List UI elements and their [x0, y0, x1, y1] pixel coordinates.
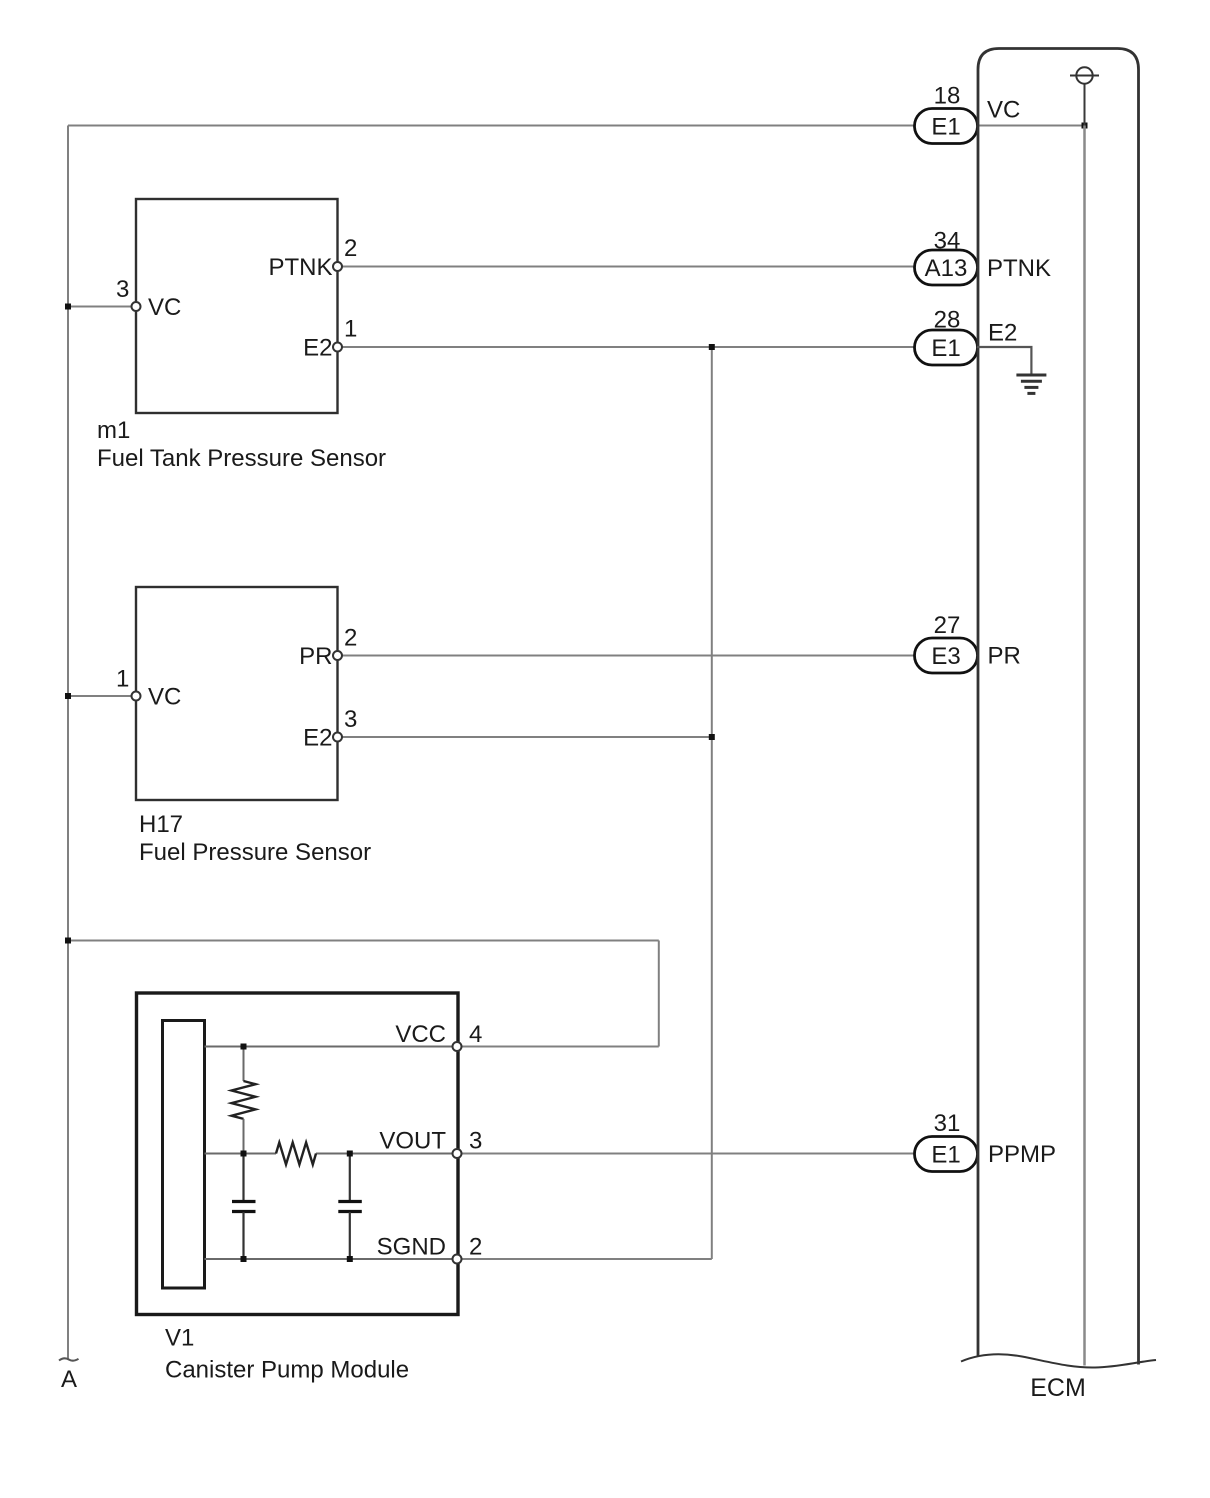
wire VOUT node down to capacitor C2 [349, 1154, 351, 1202]
svg-text:PTNK: PTNK [268, 254, 332, 281]
junction VC bus / VCC feed [65, 938, 71, 944]
svg-text:3: 3 [344, 706, 357, 733]
wire VOUT inside V1 right of resistor [316, 1153, 457, 1155]
wire capacitor C2 to SGND [349, 1212, 351, 1259]
svg-text:PR: PR [988, 643, 1021, 670]
wire SGND inside V1 [205, 1258, 458, 1260]
wire VCC feed horizontal from A bus [68, 940, 659, 942]
svg-text:E1: E1 [931, 1142, 960, 1169]
svg-text:E3: E3 [931, 643, 960, 670]
junction SGND / C1 [241, 1256, 247, 1262]
svg-text:2: 2 [344, 625, 357, 652]
ECM body outline [978, 49, 1139, 1365]
wire E2 from H17 pin 3 to E2 bus [338, 736, 712, 738]
junction on VC wire at ECM internal bus [1082, 123, 1088, 129]
junction E2 bus / H17 E2 wire [709, 734, 715, 740]
svg-text:V1: V1 [165, 1325, 194, 1352]
pin circle m1 PTNK [333, 262, 342, 271]
svg-text:34: 34 [934, 228, 961, 255]
wire VOUT from V1 pin 3 to ECM E1 31 [457, 1153, 915, 1155]
svg-text:1: 1 [116, 666, 129, 693]
junction VC bus / H17 VC stub [65, 693, 71, 699]
wire capacitor C1 to SGND [242, 1212, 244, 1259]
svg-text:ECM: ECM [1030, 1374, 1086, 1402]
shield terminal circle at top of ECM [1076, 67, 1092, 83]
junction VC bus / m1 VC stub [65, 304, 71, 310]
svg-text:2: 2 [469, 1234, 482, 1261]
wire resistor R1 to VOUT node [243, 1119, 245, 1154]
junction VCC / R1 branch [241, 1044, 247, 1050]
pin circle H17 VC [132, 692, 141, 701]
svg-text:A13: A13 [925, 255, 968, 282]
connector oval E1 pin 28 [915, 330, 978, 365]
svg-text:3: 3 [116, 276, 129, 303]
wire VCC feed vertical [658, 941, 660, 1047]
svg-text:PR: PR [299, 643, 332, 670]
wire VCC from V1 pin 4 [457, 1046, 659, 1048]
H17 box Fuel Pressure Sensor [136, 587, 338, 800]
junction SGND / C2 [347, 1256, 353, 1262]
svg-text:VC: VC [148, 294, 181, 321]
wire E2 bus vertical [711, 347, 713, 1259]
svg-text:E2: E2 [303, 335, 332, 362]
pin circle V1 VCC [453, 1042, 462, 1051]
junction VOUT / R1 [241, 1151, 247, 1157]
svg-text:E1: E1 [931, 335, 960, 362]
wire branch from VCC to resistor R1 [243, 1047, 245, 1082]
svg-text:VC: VC [987, 97, 1020, 124]
ground symbol [1016, 374, 1046, 377]
svg-text:18: 18 [934, 83, 961, 110]
svg-text:SGND: SGND [377, 1234, 446, 1261]
capacitor C1 [232, 1200, 256, 1203]
pin circle V1 VOUT [453, 1149, 462, 1158]
pin circle H17 PR [333, 651, 342, 660]
pin circle V1 SGND [453, 1255, 462, 1264]
resistor R1 vertical [232, 1081, 256, 1119]
svg-text:31: 31 [934, 1110, 961, 1137]
svg-text:3: 3 [469, 1128, 482, 1155]
capacitor C2 [338, 1200, 362, 1203]
ECM internal bus upper dark segment [1084, 84, 1086, 126]
svg-text:VOUT: VOUT [379, 1128, 446, 1155]
wire VCC inside V1 [205, 1046, 458, 1048]
ECM internal bus vertical [1083, 126, 1086, 1366]
svg-text:m1: m1 [97, 417, 130, 444]
svg-text:Fuel Pressure Sensor: Fuel Pressure Sensor [139, 839, 371, 866]
wire VOUT node down to capacitor C1 [242, 1154, 244, 1202]
ECM wavy bottom edge [961, 1354, 1156, 1367]
svg-text:H17: H17 [139, 811, 183, 838]
connector oval E1 pin 18 [915, 109, 978, 144]
svg-text:PPMP: PPMP [988, 1141, 1056, 1168]
junction E2 bus / m1 E2 wire [709, 344, 715, 350]
wire VC top horizontal from node A bus to ECM pin 18 [68, 125, 1085, 127]
connector oval E3 pin 27 [915, 638, 978, 673]
V1 box Canister Pump Module [137, 993, 459, 1315]
wire VC stub to m1 pin 3 [68, 306, 136, 308]
svg-text:28: 28 [934, 307, 961, 334]
wire PTNK from m1 pin 2 to ECM A13 [338, 266, 915, 268]
svg-text:VC: VC [148, 684, 181, 711]
wire VC bus left vertical [67, 126, 69, 1360]
svg-text:Canister Pump Module: Canister Pump Module [165, 1357, 409, 1384]
svg-text:27: 27 [934, 612, 961, 639]
svg-text:E1: E1 [931, 114, 960, 141]
svg-text:A: A [61, 1366, 77, 1393]
svg-text:Fuel Tank Pressure Sensor: Fuel Tank Pressure Sensor [97, 445, 386, 472]
wire E2 from m1 pin 1 to ECM E1 28 [338, 346, 915, 348]
connector oval A13 pin 34 [915, 250, 978, 285]
V1 inner element rectangle [163, 1021, 205, 1289]
resistor R2 horizontal [276, 1143, 316, 1165]
wire PR from H17 pin 2 to ECM E3 27 [338, 655, 915, 657]
junction VOUT / C2 [347, 1151, 353, 1157]
pin circle m1 VC [132, 302, 141, 311]
m1 box Fuel Tank Pressure Sensor [136, 199, 338, 413]
svg-text:E2: E2 [988, 320, 1017, 347]
node A break tick [59, 1358, 79, 1360]
wire VC stub to H17 pin 1 [68, 695, 136, 697]
svg-text:4: 4 [469, 1021, 482, 1048]
svg-text:PTNK: PTNK [987, 255, 1051, 282]
pin circle m1 E2 [333, 343, 342, 352]
svg-text:VCC: VCC [395, 1021, 446, 1048]
connector oval E1 pin 31 [915, 1137, 978, 1172]
svg-text:E2: E2 [303, 725, 332, 752]
wire E2 to ground inside ECM [977, 347, 1031, 374]
svg-text:2: 2 [344, 235, 357, 262]
wire SGND from V1 pin 2 to E2 bus [457, 1258, 712, 1260]
wire VOUT inside V1 left of resistor [205, 1153, 277, 1155]
pin circle H17 E2 [333, 733, 342, 742]
svg-text:1: 1 [344, 316, 357, 343]
